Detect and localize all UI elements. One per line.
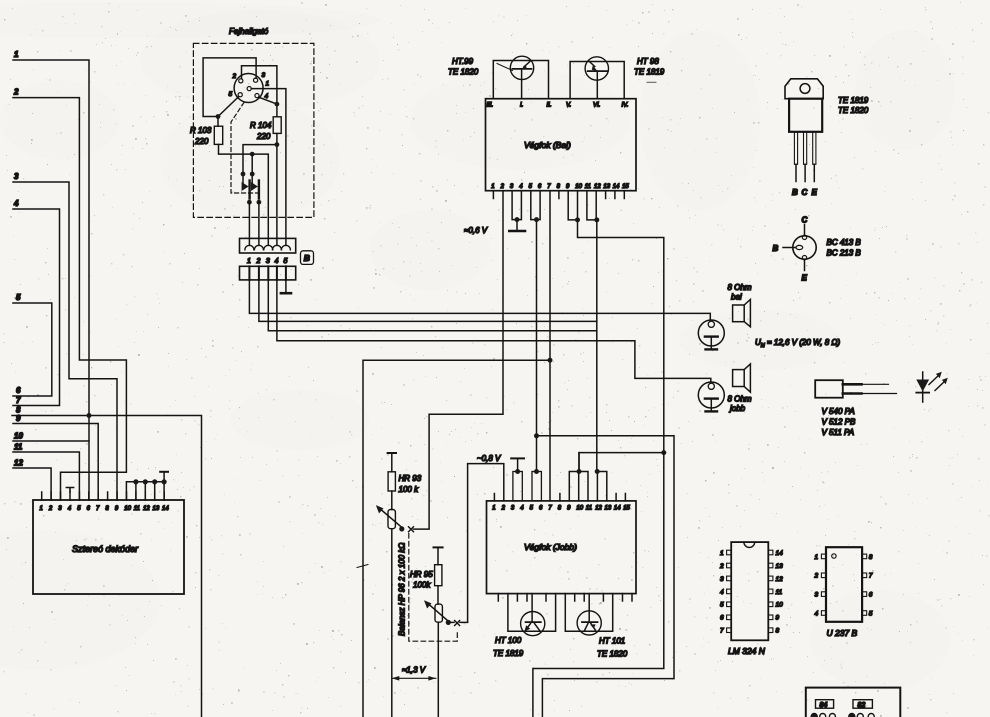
connector B label [301,251,314,265]
svg-text:12: 12 [595,506,602,512]
svg-text:4: 4 [720,589,724,596]
transistor HT101 [577,611,601,635]
svg-text:2: 2 [814,573,819,580]
svg-text:14: 14 [614,506,621,512]
svg-text:V 511 PA: V 511 PA [822,428,855,437]
svg-text:Fejhallgató: Fejhallgató [229,27,269,36]
svg-text:2: 2 [48,506,53,512]
svg-text:HT 101: HT 101 [599,637,625,646]
transistor HT99 [510,56,533,79]
IC U237B DIP-8 [826,547,862,622]
svg-text:5: 5 [229,91,233,98]
connector strip upper (socket hooks) [240,238,296,253]
wire 2 [13,98,126,500]
svg-text:6: 6 [720,615,724,622]
svg-text:6: 6 [16,386,21,395]
svg-text:E: E [812,188,818,197]
headphone dashed enclosure Fejhallgato [193,43,314,217]
svg-text:V 540 PA: V 540 PA [822,407,855,416]
Jobb pins3/4 component with open terminal [513,472,522,501]
wire Bal pin2 to HR93 wiper [414,191,504,529]
speaker 8 Ohm bal [733,305,745,322]
svg-text:2: 2 [256,258,261,265]
wire 10 [13,440,89,442]
svg-text:2: 2 [719,563,724,570]
svg-text:C: C [802,216,808,225]
svg-text:11: 11 [134,506,140,512]
HR93 coupling cross [409,527,414,532]
svg-text:Sztereó dekóder: Sztereó dekóder [72,544,139,554]
transistor HT98 bracket [570,62,624,99]
LED symbol [922,372,924,402]
left wire number labels [13,50,23,468]
svg-text:5: 5 [720,602,724,609]
svg-text:11: 11 [14,443,23,452]
wire R103 bottom to strip pin3 [219,144,269,245]
transistor HT100 bracket [508,594,556,632]
potentiometer HR95 [434,546,443,548]
jack mechanical linkage dashed [231,103,259,194]
svg-text:9: 9 [16,414,21,423]
svg-text:1: 1 [40,506,43,512]
svg-text:1: 1 [266,81,270,88]
svg-text:8: 8 [869,554,873,561]
svg-text:7: 7 [16,396,21,405]
svg-text:V.: V. [566,103,571,109]
resistor R104 [273,117,281,134]
svg-text:R 104: R 104 [250,121,272,130]
svg-text:Balansz HP 96 2 x 100 kΩ: Balansz HP 96 2 x 100 kΩ [398,543,407,636]
jack switch contact b [251,154,253,183]
svg-text:VI.: VI. [593,103,600,109]
svg-text:HR 93: HR 93 [399,474,422,483]
svg-text:III.: III. [487,103,494,109]
svg-text:13: 13 [776,563,784,570]
svg-text:5: 5 [16,293,21,302]
svg-text:TE 1820: TE 1820 [597,650,628,659]
svg-text:TE 1819: TE 1819 [838,96,869,105]
svg-text:10: 10 [576,506,583,512]
transistor HT99 bracket [493,61,548,99]
svg-text:≈0,6 V: ≈0,6 V [464,226,488,235]
Bal pins9/10 junction [568,191,664,453]
svg-text:15: 15 [623,506,630,512]
ground at strip pin5 [285,280,287,292]
wire B2 [259,280,597,322]
svg-text:BC 413 B: BC 413 B [827,238,862,247]
svg-text:11: 11 [585,184,591,190]
svg-text:4: 4 [13,199,19,208]
Bal bottom pin numbers [491,184,629,190]
transistor HT101 bracket [565,594,612,632]
LED package V540PA [815,380,843,398]
svg-text:2: 2 [501,506,506,512]
svg-text:HR 95: HR 95 [410,570,433,579]
svg-text:13: 13 [605,506,612,512]
svg-text:bal: bal [731,293,742,302]
HR95 coupling cross [455,621,460,626]
svg-text:4: 4 [275,258,279,265]
LED emission arrows [929,375,946,391]
connector strip lower [240,266,296,280]
svg-text:7: 7 [720,628,724,635]
svg-text:HT 100: HT 100 [495,636,522,645]
svg-text:1: 1 [720,550,724,557]
svg-text:jobb: jobb [729,404,746,413]
svg-text:2: 2 [232,73,237,80]
svg-text:84: 84 [820,702,828,709]
svg-text:14: 14 [776,550,784,557]
svg-text:10: 10 [776,602,784,609]
svg-text:TE 1820: TE 1820 [448,68,479,77]
strip pin numbers 1-5 [247,258,288,265]
Bal pins11/12 junction down [587,191,597,472]
svg-text:B: B [304,253,310,263]
Bal pins5/6 junction down [531,191,540,473]
svg-text:8 Ohm: 8 Ohm [728,395,752,404]
svg-text:7: 7 [869,573,873,580]
svg-text:3: 3 [262,72,266,79]
Jobb pins5/6 component [532,472,541,501]
wire pin7 branch left rail [363,360,550,717]
Jobb top pin numbers [492,506,630,512]
svg-text:15: 15 [622,184,629,190]
wire B1 to left phono jack [249,280,710,320]
jack switch contact a [241,172,246,177]
resistor R103 [214,126,222,144]
svg-text:14: 14 [613,184,620,190]
0,8V bracket wire [468,464,504,623]
svg-text:9: 9 [776,615,780,622]
svg-text:1: 1 [491,184,494,190]
wire 11 [13,452,79,500]
svg-text:3: 3 [720,576,724,583]
svg-text:U 237 B: U 237 B [827,628,858,638]
svg-text:11: 11 [776,589,783,596]
svg-text:12: 12 [14,459,23,468]
svg-text:~0,8 V: ~0,8 V [477,454,501,463]
svg-text:B: B [792,188,798,197]
ganged linkage dashed [409,534,458,642]
transistor outline BC413B/BC213B [793,236,816,259]
wire 4 to wire 7 link [13,209,60,406]
IC LM324N DIP-14 [731,542,768,640]
wire R104 bottom branch [243,133,277,245]
svg-text:IV.: IV. [622,103,629,109]
svg-text:100k: 100k [413,581,431,590]
svg-text:5: 5 [869,610,873,617]
bottom connector box [806,688,901,717]
svg-text:LM 324 N: LM 324 N [728,646,766,656]
DIN pin numbers [229,72,270,100]
pin14 open terminal cap [160,471,168,473]
svg-text:1: 1 [247,258,251,265]
svg-text:B: B [773,244,779,253]
DIN connector circle [234,74,263,103]
Jobb pins9/10/11 bracket [569,453,588,501]
decoder pin stubs [42,492,165,500]
svg-text:11: 11 [586,506,592,512]
transistor HT98 [585,57,608,80]
svg-text:V 512 PB: V 512 PB [822,418,856,427]
svg-text:BC 213 B: BC 213 B [827,249,862,258]
svg-text:HT.99: HT.99 [452,57,474,66]
wire 12 [13,468,51,500]
junction wire8/wire1 [87,413,92,418]
svg-text:TE 1819: TE 1819 [493,649,524,658]
svg-text:4: 4 [815,610,819,617]
svg-text:8: 8 [776,628,780,635]
HT99 label leader [497,64,513,71]
svg-text:TE 1820: TE 1820 [838,106,869,115]
svg-text:12: 12 [594,184,601,190]
svg-text:100 k: 100 k [399,485,420,494]
svg-text:3: 3 [266,258,270,265]
svg-text:E: E [802,274,808,283]
svg-text:HT 98: HT 98 [637,57,659,66]
Jobb pins12/13 bracket [597,472,606,501]
decoder pin4 open terminal [66,488,73,493]
svg-text:1: 1 [14,50,19,59]
svg-text:3: 3 [815,592,819,599]
svg-text:10: 10 [575,184,582,190]
Jobb bottom pin stubs [498,594,632,601]
wire DIN pin2/pin4 to R104 [242,66,277,117]
svg-text:≈1,3 V: ≈1,3 V [402,666,426,675]
HR95 wiper arrow [428,603,449,621]
svg-text:2: 2 [13,88,19,97]
Bal top pin labels [487,103,629,109]
scan tick [357,565,368,568]
wire branch to Jobb pins9-11 [579,453,664,472]
svg-text:12: 12 [143,506,150,512]
wire Bal pin7 down to Jobb pin7 [549,191,551,501]
svg-text:Végfok (Jobb): Végfok (Jobb) [524,542,577,552]
svg-text:C: C [802,188,808,197]
Vegfok Bal amplifier box [486,99,637,191]
svg-text:R 103: R 103 [190,126,212,135]
svg-text:82: 82 [858,702,866,709]
wire Bal5/6 branch right down to bottom rail [537,436,675,717]
wire DIN center pin to strip pin5 [251,89,286,246]
svg-text:3: 3 [14,172,19,181]
phono jack right [698,382,724,408]
svg-text:2: 2 [500,184,505,190]
stereo decoder box [33,500,184,594]
svg-text:6: 6 [869,592,873,599]
Vegfok Jobb amplifier box [487,501,637,594]
svg-text:II.: II. [547,103,552,109]
svg-text:10: 10 [124,506,131,512]
wire B3 [268,280,597,331]
DIN pin contacts [238,78,259,98]
svg-text:8 Ohm: 8 Ohm [728,283,752,292]
Jobb top stubs [494,494,625,501]
bottom box contact dots [811,714,874,717]
wire 5 to wire 6 link [13,303,52,396]
transistor HT100 [521,612,545,636]
wire 9 [13,424,98,501]
wire B4 to right phono jack [277,280,711,382]
svg-text:14: 14 [162,506,169,512]
HR93 wiper arrow [380,508,403,527]
TO-220 package TE1819/TE1820 [785,79,823,99]
svg-text:13: 13 [603,184,610,190]
svg-text:5: 5 [284,258,288,265]
1,3V measure arrow [392,677,436,679]
wire to bottom rail P [533,453,664,717]
svg-text:12: 12 [776,576,784,583]
svg-text:13: 13 [153,506,160,512]
decoder pin numbers [40,506,170,512]
wire 1 [13,60,89,500]
svg-text:10: 10 [14,432,23,441]
svg-text:1: 1 [492,506,495,512]
phono jack left [698,320,724,346]
decoder pins 10-14 bus [126,472,164,500]
svg-text:220: 220 [256,132,271,141]
wire DIN pin3/pin5 to R103 [203,58,256,126]
svg-text:Végfok (Bal): Végfok (Bal) [524,140,571,150]
wire 8 [12,416,202,717]
speaker 8 Ohm jobb [733,370,745,387]
Bal bottom pin stubs [493,191,624,199]
Bal pins3/4 to ground [512,191,521,230]
svg-text:1: 1 [815,554,819,561]
svg-text:220: 220 [194,137,209,146]
wire 3 [13,182,117,500]
potentiometer HR93 [388,452,396,454]
svg-text:TE 1819: TE 1819 [634,68,665,77]
svg-text:I.: I. [520,103,523,109]
